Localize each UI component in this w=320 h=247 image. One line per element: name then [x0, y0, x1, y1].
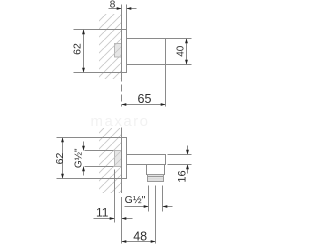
svg-text:40: 40 — [176, 45, 187, 57]
dimension 62 (flange height, bottom view) — [54, 138, 127, 179]
dimension 65 (depth from wall) — [122, 65, 166, 107]
outlet thread G1/2 — [148, 175, 164, 182]
wall hatching (top view) — [99, 14, 122, 79]
svg-text:65: 65 — [138, 92, 152, 106]
svg-text:62: 62 — [72, 43, 84, 55]
svg-text:16: 16 — [177, 170, 189, 182]
in-wall inlet union (bottom view) — [115, 151, 122, 167]
dimension 11 (in-wall depth) — [94, 170, 133, 223]
flange (bottom view) — [122, 138, 127, 179]
dimension 40 (body diameter) — [166, 39, 192, 65]
horizontal arm body — [127, 155, 166, 165]
dimension 62 (flange height, top view) — [72, 30, 127, 73]
wall hatching (bottom view) — [99, 128, 122, 193]
outlet collar — [147, 165, 165, 175]
flange (top view) — [122, 30, 127, 73]
in-wall inlet union (top view) — [115, 44, 122, 58]
svg-text:48: 48 — [133, 229, 147, 243]
wall face line (bottom view) — [121, 128, 123, 194]
wall face line (top view) — [121, 5, 123, 79]
svg-text:G½": G½" — [125, 194, 146, 206]
dimension G1/2 outlet (bottom) — [125, 186, 173, 212]
dimension G1/2 rear inlet (left) — [74, 142, 114, 176]
svg-text:8: 8 — [110, 0, 116, 10]
cylindrical body (top view) — [127, 39, 166, 65]
svg-text:maxaro: maxaro — [90, 113, 149, 130]
svg-text:62: 62 — [54, 153, 66, 165]
outlet centerline — [155, 186, 157, 244]
svg-text:11: 11 — [96, 206, 109, 220]
dimension 48 (wall to outlet axis) — [122, 229, 156, 243]
wall face extension line (down) — [121, 197, 123, 244]
dimension 16 (arm height) — [168, 146, 192, 183]
svg-text:G½": G½" — [74, 148, 85, 168]
dimension 8 (flange thickness) — [109, 0, 137, 30]
